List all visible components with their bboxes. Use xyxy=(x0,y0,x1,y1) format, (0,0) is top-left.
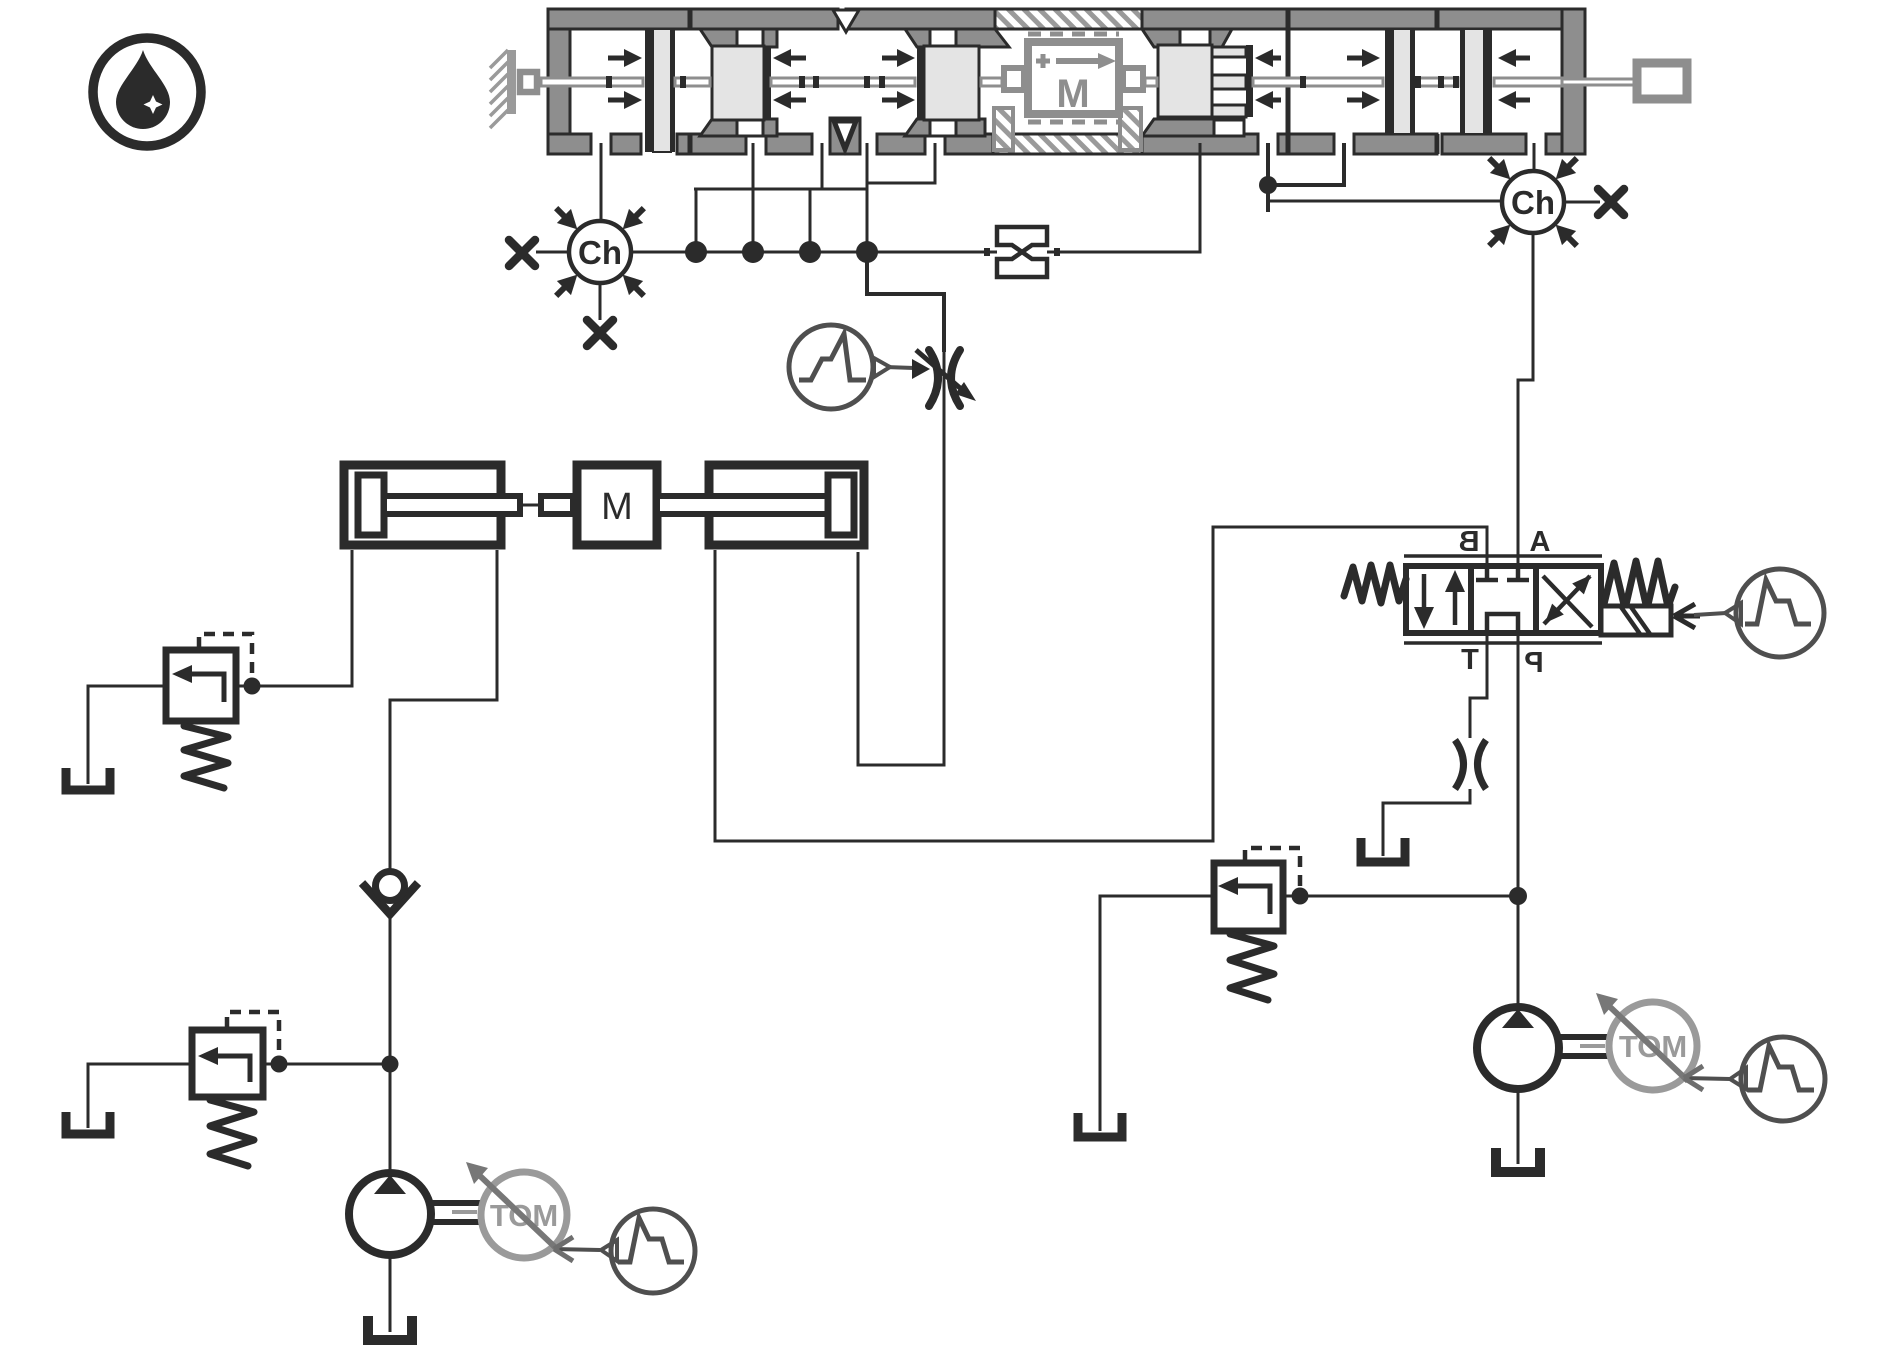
pump P1 xyxy=(349,1173,431,1255)
signal generator G1 xyxy=(789,325,930,409)
actuator housing right cap xyxy=(1562,9,1585,154)
wire CL1 right port down to check valve xyxy=(390,550,497,872)
relief valve RV1 spring xyxy=(184,726,228,788)
svg-text:M: M xyxy=(1056,72,1089,116)
pump P2 xyxy=(1477,1007,1559,1089)
relief valve RV2 spring xyxy=(210,1100,254,1166)
actuator station 4 piston block xyxy=(1158,45,1253,117)
actuator top band station bulges xyxy=(700,29,1232,47)
cylinder CL1 barrel xyxy=(344,465,501,545)
fixed orifice O1 xyxy=(984,227,1060,277)
tank T6 xyxy=(1496,1148,1540,1172)
chamber symbol Ch2 xyxy=(1502,171,1564,233)
cylinder CL2 barrel xyxy=(709,465,864,545)
wire pump P2 to tank xyxy=(1517,1089,1520,1164)
actuator motor connector right xyxy=(1123,68,1143,90)
actuator housing left cap xyxy=(548,9,570,154)
actuator rod joints xyxy=(606,76,1459,88)
svg-text:T: T xyxy=(1461,644,1479,676)
actuator piston rod xyxy=(541,78,1637,86)
actuator motor-section top hatched wall xyxy=(995,9,1142,29)
cylinder CL1 piston xyxy=(358,475,384,535)
actuator station 3 piston block xyxy=(917,46,979,120)
wire port1 to chamber Ch1 xyxy=(600,143,603,220)
valve V1 right cell crossed arrows xyxy=(1539,570,1597,629)
valve V1 proportional solenoid xyxy=(1601,606,1671,635)
valve V1 proportional frame lines xyxy=(1404,556,1602,643)
valve V1 left cell arrows xyxy=(1414,570,1465,629)
Ch1 bottom plug X xyxy=(587,320,613,346)
svg-text:M: M xyxy=(601,486,633,528)
actuator housing section joints xyxy=(690,9,1437,154)
junction dot n5 xyxy=(1259,176,1277,194)
wire throttle down to cylinder line xyxy=(858,404,944,765)
junction dot main left xyxy=(382,1056,399,1073)
svg-text:P: P xyxy=(1524,647,1543,679)
check valve CV1 xyxy=(362,872,418,915)
tank T2 xyxy=(66,768,110,790)
Ch2 right plug X xyxy=(1598,189,1624,215)
actuator rod end eye xyxy=(1637,63,1687,99)
signal generator G4 xyxy=(1684,1037,1825,1121)
actuator chamber arrows row 1 xyxy=(608,49,1530,109)
valve V1 port label B xyxy=(1459,526,1480,558)
wire port5 elbow xyxy=(867,143,935,183)
junction dot n3 xyxy=(799,241,821,263)
valve V1 port label A xyxy=(1530,526,1551,558)
chamber symbol Ch1 xyxy=(569,221,631,283)
valve V1 body xyxy=(1406,566,1601,633)
valve V1 right spring xyxy=(1604,561,1675,609)
wire collector bus xyxy=(694,189,867,252)
Ch2 right capped line xyxy=(1564,201,1600,204)
valve V1 port label T xyxy=(1461,644,1479,676)
valve V1 port label P xyxy=(1524,647,1543,679)
Ch1 compression arrows xyxy=(549,201,651,303)
pump P1 shaft xyxy=(431,1203,483,1222)
valve V1 centre cell blocked ports xyxy=(1476,566,1529,633)
junction dot n4 xyxy=(856,241,878,263)
oil drop icon xyxy=(93,38,201,146)
actuator hatched motor pillars xyxy=(994,108,1141,150)
wire orifice to motor port xyxy=(1047,143,1200,252)
relief valve RV1 xyxy=(166,650,236,721)
wire valve T to tank xyxy=(1470,633,1487,738)
fixed orifice O2 xyxy=(1455,740,1486,789)
actuator motor connector left xyxy=(1004,68,1024,90)
valve V1 left spring xyxy=(1344,565,1406,603)
Ch1 bottom line xyxy=(599,283,602,320)
wire valve P down to pump P2 xyxy=(1517,633,1520,1008)
relief valve RV2 pilot line xyxy=(227,1012,279,1056)
wire CL2 left port to valve B line xyxy=(715,527,1487,841)
junction dot RV2 xyxy=(271,1056,288,1073)
tank T1 xyxy=(1361,838,1405,862)
junction dot RV3 xyxy=(1292,888,1309,905)
Ch2 top line to port xyxy=(1533,143,1536,171)
wire RV1 to tank xyxy=(88,686,166,784)
wire RV3 to tank xyxy=(1100,896,1214,1131)
tank T4 xyxy=(368,1316,412,1340)
cylinder CL2 piston xyxy=(828,475,854,535)
svg-text:B: B xyxy=(1459,526,1480,558)
wire RV3 outlet to P line xyxy=(1283,895,1518,898)
wire RV2 outlet to main line xyxy=(263,1063,390,1066)
motor M1 box xyxy=(577,465,657,545)
wire motor ports to right gallery xyxy=(1268,143,1502,212)
relief valve RV2 xyxy=(192,1030,263,1097)
cylinder CL1 rod xyxy=(384,496,573,514)
actuator piston 1 xyxy=(645,29,675,152)
wire orifice O2 to tank xyxy=(1383,789,1470,856)
wire port3 drop xyxy=(821,143,824,189)
junction dot n1 xyxy=(685,241,707,263)
wire port4 drop xyxy=(866,143,869,252)
actuator station 2 piston block xyxy=(712,46,771,120)
actuator piston 6 xyxy=(1460,29,1492,134)
actuator housing top band xyxy=(548,9,1585,32)
wire pump P1 to tank xyxy=(389,1255,392,1332)
tank T5 xyxy=(1078,1113,1122,1137)
wire RV1 outlet xyxy=(236,685,262,688)
relief valve RV3 spring xyxy=(1230,934,1274,1000)
actuator motor-section bottom hatched wall xyxy=(993,134,1142,154)
signal generator G2 xyxy=(1694,569,1824,657)
actuator linear motor M xyxy=(1028,34,1119,122)
actuator anchor bracket xyxy=(520,72,537,92)
actuator wall anchor hatching xyxy=(490,50,516,128)
actuator housing bottom band xyxy=(548,134,1562,154)
torque motor TOM1 xyxy=(466,1162,567,1258)
junction dot n2 xyxy=(742,241,764,263)
relief valve RV3 xyxy=(1214,863,1283,931)
svg-text:Ch: Ch xyxy=(1511,184,1555,221)
relief valve RV1 pilot line xyxy=(199,634,252,678)
Ch1 left capped line xyxy=(536,251,569,254)
wire CL1 left port down to relief junction xyxy=(261,550,352,686)
torque motor TOM2 xyxy=(1596,993,1697,1090)
Ch1 left plug X xyxy=(509,240,535,266)
wire Ch2 down to valve A port xyxy=(1518,233,1533,566)
junction dot P line xyxy=(1509,887,1527,905)
valve V1 solenoid command arrow xyxy=(1674,604,1700,628)
actuator piston 5 xyxy=(1385,29,1415,134)
junction dot RV1 xyxy=(244,678,261,695)
svg-text:A: A xyxy=(1530,526,1551,558)
cylinder CL2 rod xyxy=(657,496,830,514)
wire RV2 to tank xyxy=(88,1064,192,1128)
actuator bottom V seal block xyxy=(830,118,860,154)
actuator bottom band station bulges xyxy=(700,119,1244,136)
relief valve RV3 pilot line xyxy=(1245,848,1300,888)
wire n4 to variable throttle branch xyxy=(867,252,944,352)
signal generator G3 xyxy=(554,1209,695,1293)
svg-text:Ch: Ch xyxy=(578,234,622,271)
wire main gallery line xyxy=(632,251,997,254)
Ch2 compression arrows xyxy=(1482,151,1584,253)
variable throttle VT1 xyxy=(916,350,976,406)
wire port2 drop xyxy=(752,143,755,252)
tank T3 xyxy=(66,1112,110,1134)
wire check valve down to junction xyxy=(389,913,392,1174)
pump P2 shaft xyxy=(1559,1037,1611,1056)
